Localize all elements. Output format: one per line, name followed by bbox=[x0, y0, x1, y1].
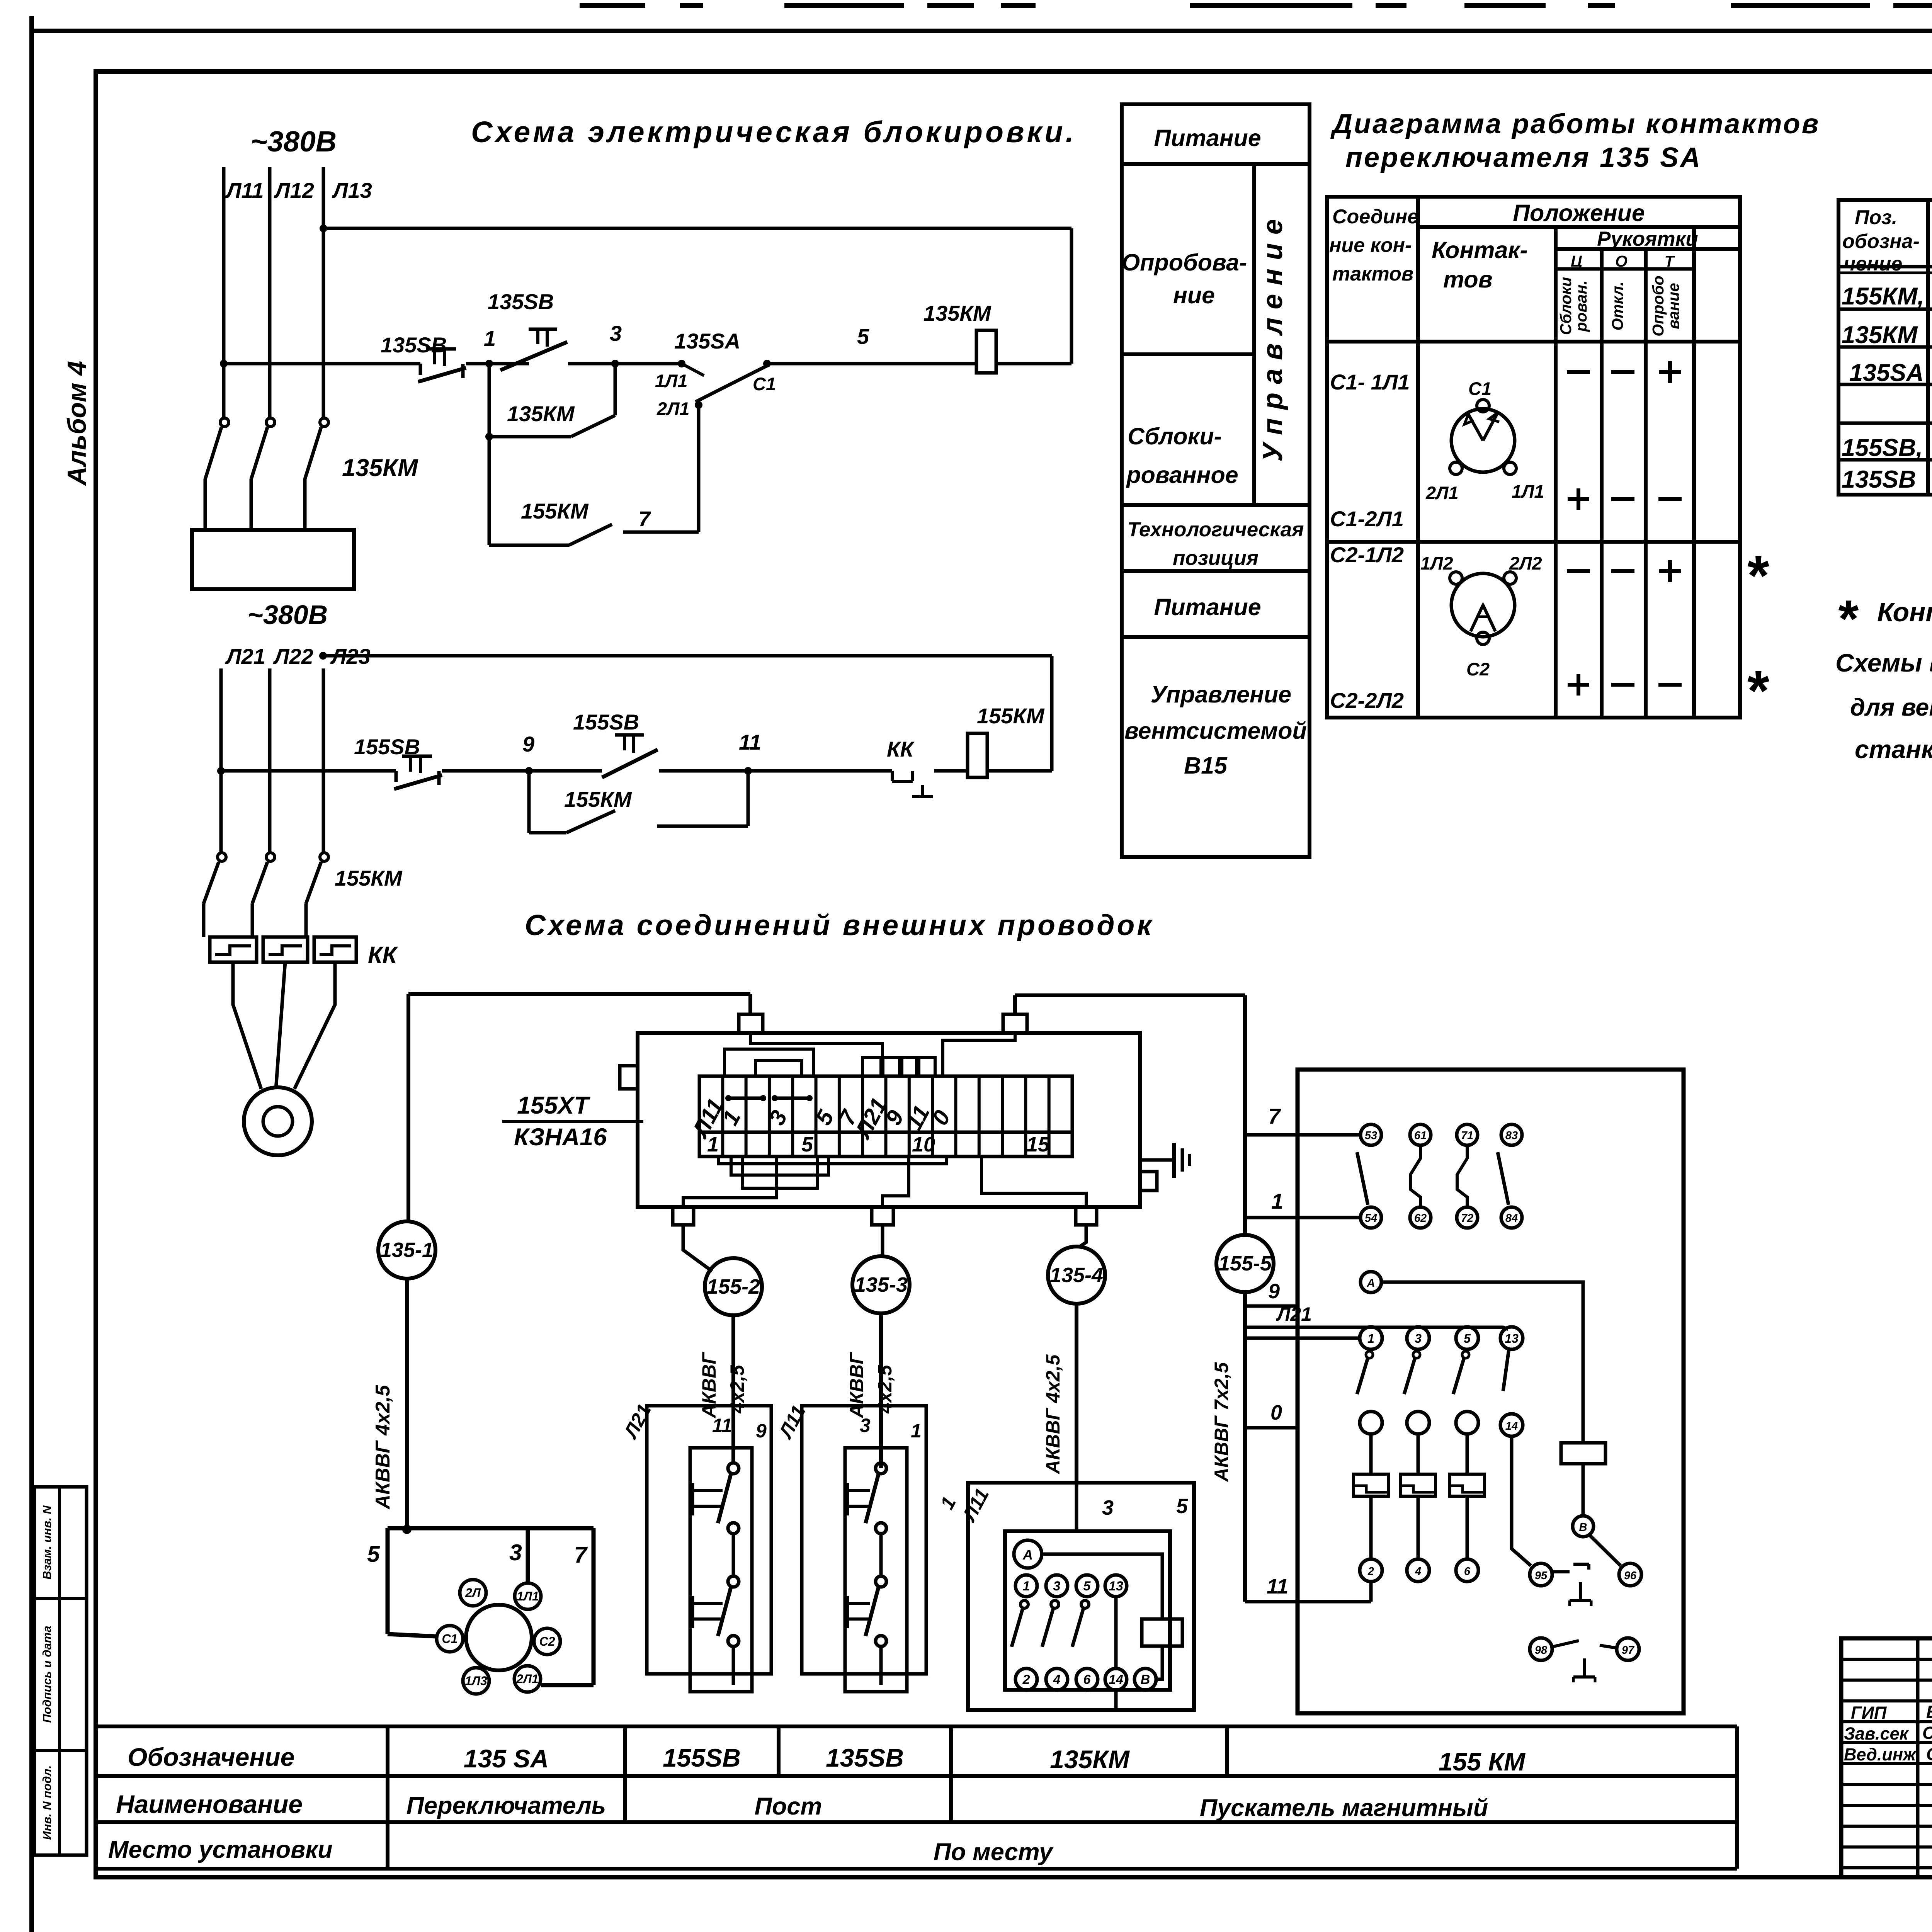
svg-text:1Л3: 1Л3 bbox=[465, 1674, 487, 1688]
svg-text:71: 71 bbox=[1461, 1129, 1473, 1142]
svg-text:2Л: 2Л bbox=[465, 1586, 481, 1600]
svg-text:ГИП: ГИП bbox=[1851, 1703, 1887, 1723]
svg-text:155SB: 155SB bbox=[354, 735, 420, 759]
svg-text:62: 62 bbox=[1414, 1212, 1427, 1225]
svg-text:1Л1: 1Л1 bbox=[517, 1589, 539, 1603]
svg-text:135 SA: 135 SA bbox=[464, 1744, 549, 1773]
svg-text:5: 5 bbox=[857, 324, 869, 349]
svg-text:5: 5 bbox=[1083, 1579, 1091, 1594]
svg-text:~380В: ~380В bbox=[250, 125, 337, 158]
svg-text:Диаграмма работы контактов: Диаграмма работы контактов bbox=[1330, 109, 1820, 139]
svg-text:ние кон-: ние кон- bbox=[1329, 234, 1412, 257]
svg-text:6: 6 bbox=[1083, 1672, 1091, 1687]
svg-text:*: * bbox=[1836, 589, 1859, 648]
svg-text:обозна-: обозна- bbox=[1842, 230, 1920, 253]
svg-text:АКВВГ 7х2,5: АКВВГ 7х2,5 bbox=[1211, 1362, 1232, 1482]
svg-text:рованное: рованное bbox=[1126, 462, 1238, 488]
svg-text:КК: КК bbox=[887, 737, 915, 761]
svg-text:С1: С1 bbox=[753, 374, 776, 394]
svg-text:135КМ: 135КМ bbox=[342, 454, 418, 481]
svg-text:11: 11 bbox=[1267, 1575, 1288, 1598]
svg-text:97: 97 bbox=[1622, 1644, 1635, 1656]
svg-text:Управление: Управление bbox=[1257, 211, 1288, 462]
svg-text:11: 11 bbox=[739, 730, 761, 754]
svg-text:Схемы выполнены для вентсистем: Схемы выполнены для вентсистемы В15 и за… bbox=[1835, 648, 1932, 677]
svg-text:135КМ: 135КМ bbox=[1842, 321, 1918, 349]
svg-text:135КМ: 135КМ bbox=[507, 401, 575, 426]
svg-text:155SB: 155SB bbox=[663, 1743, 741, 1772]
svg-text:позиция: позиция bbox=[1173, 547, 1259, 570]
svg-text:Опробова-: Опробова- bbox=[1122, 249, 1247, 276]
svg-text:1: 1 bbox=[911, 1420, 922, 1442]
svg-text:5: 5 bbox=[367, 1541, 380, 1567]
svg-text:тов: тов bbox=[1443, 266, 1493, 293]
svg-text:5: 5 bbox=[801, 1133, 813, 1156]
svg-text:Л21: Л21 bbox=[225, 644, 265, 668]
svg-text:АКВВГ: АКВВГ bbox=[846, 1352, 867, 1419]
svg-text:135SB: 135SB bbox=[1842, 466, 1916, 493]
svg-text:13: 13 bbox=[1505, 1332, 1519, 1345]
svg-text:155КМ,: 155КМ, bbox=[1842, 283, 1924, 310]
svg-text:135-4: 135-4 bbox=[1050, 1264, 1103, 1287]
svg-text:135SB: 135SB bbox=[826, 1743, 904, 1772]
svg-text:135SA: 135SA bbox=[674, 329, 740, 353]
svg-text:135-3: 135-3 bbox=[854, 1273, 908, 1296]
svg-text:135SB: 135SB bbox=[381, 333, 447, 357]
svg-text:Схема электрическая блокиро: Схема электрическая блокировки. bbox=[471, 116, 1077, 149]
svg-text:155КМ: 155КМ bbox=[335, 866, 403, 890]
svg-text:КК: КК bbox=[368, 942, 398, 968]
svg-text:Инв. N подл.: Инв. N подл. bbox=[40, 1765, 54, 1840]
svg-text:переключателя 135 SA: переключателя 135 SA bbox=[1345, 142, 1702, 173]
svg-text:11: 11 bbox=[712, 1415, 732, 1436]
svg-text:155КМ: 155КМ bbox=[977, 704, 1045, 728]
svg-text:С1: С1 bbox=[1468, 378, 1492, 399]
svg-text:станков они аналогичных.: станков они аналогичных. bbox=[1855, 735, 1932, 764]
svg-text:Схема соединений внешних пр: Схема соединений внешних проводок bbox=[525, 909, 1154, 941]
svg-text:*: * bbox=[1745, 544, 1769, 607]
svg-text:АКВВГ: АКВВГ bbox=[698, 1352, 720, 1419]
svg-text:96: 96 bbox=[1624, 1570, 1637, 1582]
svg-text:53: 53 bbox=[1365, 1129, 1377, 1142]
svg-text:98: 98 bbox=[1535, 1644, 1548, 1656]
svg-text:2: 2 bbox=[1022, 1672, 1030, 1687]
svg-text:Зав.сек: Зав.сек bbox=[1844, 1724, 1909, 1743]
svg-text:9: 9 bbox=[756, 1420, 767, 1442]
svg-text:13: 13 bbox=[1109, 1579, 1123, 1594]
svg-text:155КМ: 155КМ bbox=[521, 499, 589, 523]
svg-text:1Л1: 1Л1 bbox=[655, 371, 688, 391]
svg-text:1: 1 bbox=[484, 326, 496, 350]
svg-text:тактов: тактов bbox=[1332, 263, 1413, 285]
svg-text:Обозначение: Обозначение bbox=[128, 1743, 294, 1771]
svg-text:3: 3 bbox=[610, 321, 622, 345]
svg-text:для вентсистем В5,В29,В30 и то: для вентсистем В5,В29,В30 и точильно-шли… bbox=[1850, 694, 1932, 721]
svg-text:155-5: 155-5 bbox=[1218, 1252, 1272, 1275]
svg-text:Л21: Л21 bbox=[1276, 1303, 1312, 1325]
svg-text:Т: Т bbox=[1664, 252, 1675, 270]
svg-text:1: 1 bbox=[1023, 1579, 1030, 1594]
svg-text:С2-2Л2: С2-2Л2 bbox=[1330, 688, 1404, 713]
svg-text:Л11: Л11 bbox=[225, 178, 264, 202]
svg-text:Наименование: Наименование bbox=[116, 1790, 303, 1818]
svg-text:155-2: 155-2 bbox=[707, 1275, 760, 1298]
svg-text:3: 3 bbox=[1415, 1332, 1422, 1345]
svg-text:Рукоятки: Рукоятки bbox=[1597, 228, 1698, 250]
svg-text:7: 7 bbox=[574, 1542, 588, 1568]
svg-text:135SA: 135SA bbox=[1849, 359, 1924, 386]
svg-text:С2-1Л2: С2-1Л2 bbox=[1330, 543, 1404, 567]
svg-text:Смирнова: Смирнова bbox=[1922, 1723, 1932, 1743]
svg-text:Место установки: Место установки bbox=[108, 1836, 333, 1863]
svg-text:АКВВГ 4х2,5: АКВВГ 4х2,5 bbox=[372, 1384, 394, 1510]
svg-text:7: 7 bbox=[638, 507, 651, 531]
svg-text:61: 61 bbox=[1414, 1129, 1427, 1142]
svg-text:15: 15 bbox=[1026, 1133, 1050, 1156]
svg-text:Технологическая: Технологическая bbox=[1128, 518, 1304, 541]
svg-text:0: 0 bbox=[1270, 1401, 1282, 1424]
svg-text:Питание: Питание bbox=[1154, 125, 1261, 151]
svg-text:1Л1: 1Л1 bbox=[1512, 481, 1544, 502]
svg-text:Альбом 4: Альбом 4 bbox=[62, 361, 92, 486]
svg-text:В15: В15 bbox=[1184, 752, 1228, 779]
svg-text:2: 2 bbox=[1367, 1565, 1374, 1578]
svg-text:3: 3 bbox=[1102, 1496, 1114, 1519]
svg-text:В: В bbox=[1579, 1521, 1587, 1534]
svg-text:А: А bbox=[1367, 1277, 1375, 1289]
svg-text:5: 5 bbox=[1176, 1495, 1188, 1518]
svg-text:2Л1: 2Л1 bbox=[516, 1672, 539, 1686]
svg-text:С2: С2 bbox=[1466, 659, 1490, 679]
svg-text:С2: С2 bbox=[539, 1634, 555, 1648]
svg-text:С1: С1 bbox=[442, 1632, 458, 1646]
svg-text:1: 1 bbox=[1271, 1189, 1283, 1213]
svg-text:Подпись и дата: Подпись и дата bbox=[40, 1626, 54, 1723]
svg-text:6: 6 bbox=[1464, 1565, 1471, 1578]
svg-text:С1- 1Л1: С1- 1Л1 bbox=[1330, 370, 1410, 394]
svg-text:135SB: 135SB bbox=[488, 289, 554, 314]
svg-text:2Л1: 2Л1 bbox=[656, 398, 690, 419]
svg-text:14: 14 bbox=[1505, 1420, 1518, 1432]
svg-text:1Л2: 1Л2 bbox=[1420, 553, 1453, 573]
svg-text:1: 1 bbox=[1367, 1332, 1374, 1345]
svg-text:3: 3 bbox=[1053, 1579, 1061, 1594]
svg-text:155 КМ: 155 КМ bbox=[1439, 1747, 1526, 1776]
svg-text:Питание: Питание bbox=[1154, 594, 1261, 620]
svg-text:С1-2Л1: С1-2Л1 bbox=[1330, 507, 1404, 531]
svg-text:10: 10 bbox=[912, 1133, 935, 1156]
svg-text:3: 3 bbox=[860, 1415, 871, 1436]
svg-text:Л13: Л13 bbox=[332, 178, 372, 202]
svg-text:Вед.инж: Вед.инж bbox=[1844, 1745, 1917, 1764]
svg-text:7: 7 bbox=[1268, 1104, 1281, 1128]
svg-text:4: 4 bbox=[1415, 1565, 1421, 1578]
svg-text:Положение: Положение bbox=[1513, 200, 1645, 226]
svg-text:Переключатель: Переключатель bbox=[406, 1792, 606, 1819]
svg-text:54: 54 bbox=[1365, 1212, 1377, 1225]
svg-text:Поз.: Поз. bbox=[1855, 206, 1897, 229]
svg-text:Пост: Пост bbox=[755, 1793, 822, 1820]
svg-text:155ХТ: 155ХТ bbox=[517, 1092, 590, 1119]
svg-text:Откл.: Откл. bbox=[1609, 281, 1626, 330]
svg-text:9: 9 bbox=[522, 732, 534, 756]
svg-text:95: 95 bbox=[1535, 1570, 1548, 1582]
svg-text:Соедине: Соедине bbox=[1332, 206, 1418, 228]
svg-text:155SB: 155SB bbox=[573, 710, 639, 734]
svg-text:Пускатель магнитный: Пускатель магнитный bbox=[1200, 1794, 1488, 1821]
svg-text:84: 84 bbox=[1505, 1212, 1518, 1225]
svg-text:14: 14 bbox=[1109, 1672, 1123, 1687]
svg-text:2Л2: 2Л2 bbox=[1509, 553, 1542, 573]
svg-text:Сблоки-: Сблоки- bbox=[1128, 423, 1222, 449]
svg-text:~380В: ~380В bbox=[247, 600, 328, 630]
svg-text:155КМ: 155КМ bbox=[564, 787, 632, 811]
svg-text:Взам. инв. N: Взам. инв. N bbox=[40, 1505, 54, 1580]
svg-text:135КМ: 135КМ bbox=[923, 301, 992, 325]
svg-text:А: А bbox=[1022, 1547, 1033, 1563]
svg-text:рован.: рован. bbox=[1572, 280, 1590, 332]
svg-text:Бетехтин: Бетехтин bbox=[1926, 1702, 1932, 1722]
svg-text:КЗНА16: КЗНА16 bbox=[514, 1124, 607, 1151]
svg-text:135КМ: 135КМ bbox=[1050, 1745, 1130, 1774]
svg-text:Контакты не используются.: Контакты не используются. bbox=[1877, 597, 1932, 627]
svg-text:Контак-: Контак- bbox=[1432, 237, 1528, 263]
svg-text:3: 3 bbox=[509, 1540, 522, 1565]
svg-text:Л12: Л12 bbox=[274, 178, 314, 202]
svg-text:чение: чение bbox=[1844, 253, 1902, 275]
svg-text:По месту: По месту bbox=[934, 1838, 1054, 1866]
svg-text:Суслов: Суслов bbox=[1926, 1744, 1932, 1764]
svg-text:В: В bbox=[1141, 1672, 1150, 1687]
svg-text:2Л1: 2Л1 bbox=[1425, 483, 1459, 503]
svg-text:*: * bbox=[1745, 659, 1769, 723]
svg-text:135-1: 135-1 bbox=[380, 1238, 434, 1262]
svg-text:9: 9 bbox=[1268, 1280, 1280, 1303]
svg-text:83: 83 bbox=[1505, 1129, 1518, 1142]
svg-text:вентсистемой: вентсистемой bbox=[1124, 718, 1307, 744]
svg-text:О: О bbox=[1615, 252, 1628, 270]
svg-text:4: 4 bbox=[1053, 1672, 1061, 1687]
svg-text:Управление: Управление bbox=[1151, 681, 1291, 707]
svg-text:155SB,: 155SB, bbox=[1842, 434, 1923, 461]
svg-text:вание: вание bbox=[1665, 283, 1682, 329]
svg-text:АКВВГ 4х2,5: АКВВГ 4х2,5 bbox=[1042, 1354, 1064, 1475]
svg-text:1: 1 bbox=[707, 1133, 719, 1156]
svg-text:ние: ние bbox=[1173, 282, 1215, 308]
svg-text:Л22: Л22 bbox=[273, 644, 313, 668]
svg-text:Ц: Ц bbox=[1571, 252, 1582, 270]
svg-text:72: 72 bbox=[1461, 1212, 1473, 1225]
svg-text:5: 5 bbox=[1464, 1332, 1471, 1345]
